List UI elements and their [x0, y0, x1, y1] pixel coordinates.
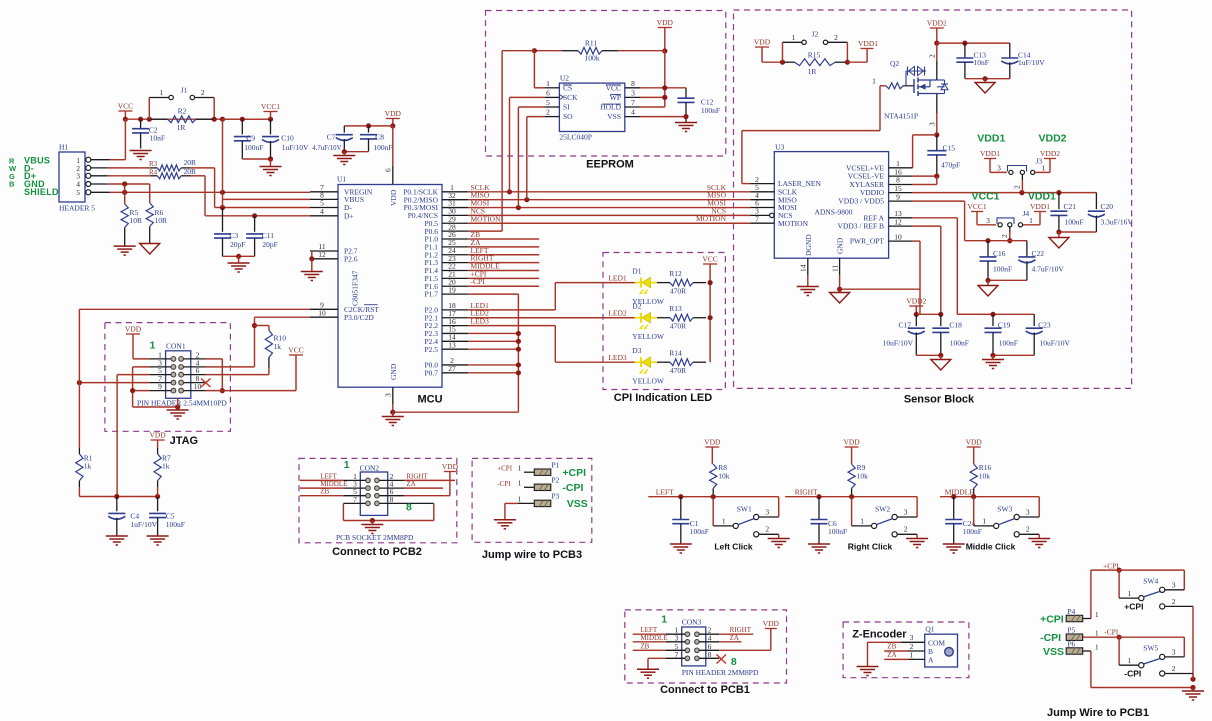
wire H1 pin2 to R3: [91, 167, 151, 169]
wire H1 pin1 VBUS to VCC: [91, 119, 126, 160]
ground under C1: [670, 544, 692, 553]
net label LED1 at MCU: [471, 301, 490, 310]
svg-text:C3: C3: [229, 231, 238, 240]
svg-text:100nF: 100nF: [993, 265, 1012, 274]
capacitor C16 100nF: [980, 241, 1013, 281]
power VDD at JTAG: [125, 325, 142, 359]
title EEPROM: [586, 159, 634, 171]
green label -CPI: [562, 482, 583, 494]
svg-text:2: 2: [765, 525, 769, 534]
wire CON1 pin5 to C4 rail: [117, 375, 150, 497]
header CON1 PIN HEADER 2.54MM10PD: [137, 340, 227, 408]
svg-text:10R: 10R: [155, 216, 168, 225]
svg-text:1R: 1R: [808, 67, 817, 76]
ground under C16 chassis: [978, 286, 998, 297]
svg-text:J2: J2: [812, 30, 819, 39]
net label MOTION at sensor: [696, 214, 727, 223]
svg-text:J1: J1: [181, 86, 188, 95]
ground at SW block: [1182, 691, 1204, 700]
ground under C18 chassis: [931, 360, 951, 371]
switch SW5: [1119, 644, 1193, 677]
net label +CPI at MCU: [471, 269, 487, 278]
svg-text:P5: P5: [1067, 626, 1075, 635]
pad P4: [1066, 607, 1099, 622]
svg-text:-CPI: -CPI: [562, 482, 583, 494]
wire P0.7 to unused bus: [468, 370, 521, 375]
svg-text:100nF: 100nF: [701, 106, 720, 115]
wire H1 pin5 SHIELD / VREGIN row: [91, 190, 310, 195]
svg-text:7: 7: [631, 98, 635, 107]
wire P2.5 to unused bus: [468, 347, 521, 352]
svg-text:10: 10: [318, 308, 326, 317]
svg-text:100nF: 100nF: [690, 527, 709, 536]
svg-text:1uF/10V: 1uF/10V: [130, 520, 157, 529]
wire C13-C14 ground rail: [965, 76, 1010, 82]
svg-text:C10: C10: [281, 134, 294, 143]
svg-text:1: 1: [661, 614, 667, 626]
power VCC1 at J4: [967, 202, 996, 225]
svg-text:7: 7: [675, 650, 679, 659]
svg-text:3: 3: [910, 633, 914, 642]
svg-text:CON2: CON2: [360, 464, 380, 473]
svg-text:100nF: 100nF: [963, 527, 982, 536]
capacitor C4 1uF/10V: [108, 497, 157, 536]
power VCC at JTAG: [288, 346, 303, 391]
header CON2 PCB SOCKET 2MM8PD: [336, 459, 414, 542]
svg-text:20pF: 20pF: [262, 240, 277, 249]
wire R1 column C2CK/RST: [78, 309, 80, 448]
svg-text:10k: 10k: [857, 472, 869, 481]
wire VDD2 rail to C13 C14: [937, 41, 1010, 46]
svg-text:VDD1: VDD1: [980, 149, 1000, 158]
net label RIGHT at SW2: [795, 487, 818, 496]
wire R15 to VDD1: [847, 49, 867, 63]
svg-text:Jump Wire to PCB1: Jump Wire to PCB1: [1047, 707, 1149, 719]
capacitor C6 100nF: [811, 497, 848, 544]
svg-text:VDD: VDD: [657, 18, 674, 27]
ground at P2.6: [301, 272, 323, 281]
capacitor C8 100nF: [360, 126, 393, 152]
wire +CPI rail SW4: [1091, 568, 1184, 619]
wire CON2 pin4 ZA: [404, 487, 443, 489]
ground under C4: [106, 536, 128, 545]
svg-text:Z-Encoder: Z-Encoder: [852, 629, 907, 641]
switch SW4: [1119, 577, 1193, 610]
power VDD at SW2: [843, 438, 860, 465]
wire VDDIO rail VDD1: [913, 190, 1097, 195]
svg-text:VCC: VCC: [288, 346, 303, 355]
ground under C7: [333, 156, 355, 165]
wire LED1 net jog up: [468, 283, 637, 310]
svg-text:-CPI: -CPI: [1124, 669, 1141, 679]
svg-text:10uF/10V: 10uF/10V: [883, 339, 914, 348]
svg-text:1: 1: [344, 459, 350, 471]
net label MOTION at MCU: [471, 214, 502, 223]
svg-text:-CPI: -CPI: [497, 480, 511, 488]
svg-text:1k: 1k: [162, 462, 170, 471]
svg-text:Left Click: Left Click: [714, 542, 753, 552]
power VDD at SW1: [704, 438, 721, 465]
green labels R W G B: [9, 156, 17, 188]
title JTAG: [170, 435, 199, 447]
svg-text:9: 9: [896, 192, 900, 201]
dashed box Connect to PCB2: [299, 458, 457, 542]
green label +CPI: [562, 467, 586, 479]
wire SCK to SCLK row: [510, 97, 545, 191]
wire J3 pin2 to VDDIO rail: [1013, 175, 1023, 193]
svg-text:YELLOW: YELLOW: [632, 332, 665, 341]
svg-text:VDD: VDD: [843, 438, 860, 447]
svg-text:DGND: DGND: [804, 234, 813, 256]
svg-text:6: 6: [546, 88, 550, 97]
svg-text:3: 3: [997, 164, 1001, 173]
resistor R4 20R: [149, 167, 196, 179]
jumper J2: [783, 30, 851, 65]
wire -CPI rail SW5: [1083, 635, 1185, 666]
net label RIGHT at CON2: [406, 472, 428, 480]
svg-text:PIN HEADER 2MM8PD: PIN HEADER 2MM8PD: [682, 668, 759, 677]
wire CON1 pin7 to R1 column: [77, 380, 150, 385]
net label LED2 at MCU: [471, 309, 490, 318]
green label -CPI at P5: [1040, 632, 1061, 644]
wire J2 rail: [762, 60, 785, 65]
svg-text:LED1: LED1: [608, 273, 627, 282]
ground under R6 chassis: [140, 244, 160, 255]
svg-text:3: 3: [904, 508, 908, 517]
svg-text:U2: U2: [560, 74, 569, 83]
svg-text:3: 3: [1172, 647, 1176, 656]
svg-text:NTA4151P: NTA4151P: [884, 112, 918, 121]
svg-text:1: 1: [160, 88, 164, 97]
resistor R14 470R: [657, 349, 706, 376]
svg-text:4: 4: [631, 108, 635, 117]
svg-text:VDD1: VDD1: [1028, 191, 1056, 203]
svg-text:100nF: 100nF: [166, 520, 185, 529]
capacitor C7 4.7uF/10V: [312, 126, 353, 152]
power VDD2 at Q2: [927, 19, 947, 46]
wire H1 pin4 GND: [91, 181, 150, 186]
wire Q2 source from VDD2: [928, 43, 937, 80]
svg-text:1: 1: [1042, 164, 1046, 173]
net label RIGHT at CON3: [730, 626, 752, 634]
wire SCLK row: [468, 189, 750, 194]
dashed box Z-Encoder: [843, 622, 969, 678]
svg-text:VDD: VDD: [966, 438, 983, 447]
svg-text:3: 3: [765, 508, 769, 517]
svg-text:VSS: VSS: [567, 498, 588, 510]
junction R11 left / CS net: [532, 48, 537, 53]
wire C19 C23 top rail: [957, 312, 1034, 317]
wire VCSEL-VE junction: [913, 174, 940, 179]
power VDD above R7: [149, 431, 166, 449]
wire CON1 pin4 to P3.0/C2D: [205, 323, 257, 367]
svg-text:CPI Indication LED: CPI Indication LED: [614, 392, 712, 404]
svg-text:5: 5: [546, 98, 550, 107]
title Z-Encoder: [852, 629, 907, 641]
svg-text:SI: SI: [563, 103, 570, 112]
wire VDD pin 6 of MCU: [384, 126, 393, 185]
resistor R7 1k: [154, 448, 171, 497]
wire J4 pin2 to C16 rail: [1000, 227, 1012, 243]
svg-text:P3: P3: [551, 492, 559, 501]
wire SI to MOSI row: [518, 107, 544, 208]
wire CON2 pin3 MIDDLE: [300, 487, 343, 489]
svg-text:C2CK/RST: C2CK/RST: [344, 305, 379, 314]
svg-text:Right Click: Right Click: [848, 542, 893, 552]
svg-text:C15: C15: [943, 144, 956, 153]
wire C16 C22 top rail: [985, 238, 1027, 243]
ground at P3: [494, 520, 516, 529]
wire H1 pin3 to R4: [91, 175, 151, 177]
wire P3 to ground: [505, 503, 518, 519]
resistor R13 470R: [657, 304, 706, 331]
wire encoder ZA: [884, 658, 908, 660]
svg-text:9: 9: [158, 382, 162, 391]
svg-text:P2.6: P2.6: [344, 254, 358, 263]
svg-text:VCC1: VCC1: [972, 191, 1000, 203]
net label MIDDLE at CON3: [640, 634, 667, 642]
svg-text:SW5: SW5: [1143, 644, 1158, 653]
svg-text:3: 3: [986, 216, 990, 225]
svg-text:CON3: CON3: [682, 618, 702, 627]
wire CON3 pin2 RIGHT: [719, 633, 753, 635]
ground under C13/C14 chassis: [975, 83, 995, 94]
svg-text:8: 8: [390, 495, 394, 504]
svg-text:+CPI: +CPI: [1124, 602, 1143, 612]
label -CPI bold at SW5: [1124, 669, 1141, 679]
svg-text:12: 12: [318, 250, 326, 259]
power VDD at CON2: [442, 462, 459, 496]
svg-text:3: 3: [631, 88, 635, 97]
net label LEFT at SW1: [656, 487, 674, 496]
wire PWR_OPT drop to VDD2 rail: [919, 289, 921, 314]
power VCC at LED block: [702, 255, 717, 283]
wire REF A down to C19 rail: [913, 218, 993, 314]
wire encoder COM to ground: [868, 642, 902, 666]
net label ZA at MCU: [471, 238, 482, 247]
wire CON3 pin5 ZB: [633, 649, 666, 651]
title Connect to PCB1: [660, 684, 750, 696]
MCU U1 C8051F347: [310, 175, 468, 388]
net label LEFT at CON3: [640, 626, 657, 634]
dashed box Connect to PCB1: [625, 610, 787, 683]
ground under C19: [982, 360, 1004, 369]
header H1 HEADER 5: [59, 143, 95, 213]
svg-text:3: 3: [1172, 580, 1176, 589]
svg-text:P6: P6: [1067, 640, 1075, 649]
svg-text:PCB SOCKET 2MM8PD: PCB SOCKET 2MM8PD: [336, 533, 414, 542]
green label VCC1: [972, 191, 1000, 203]
net label ZB at CON3: [640, 642, 649, 650]
svg-text:R2: R2: [178, 107, 187, 116]
wire VCC rail LED block: [709, 283, 711, 363]
svg-text:100nF: 100nF: [244, 143, 263, 152]
ground at SW3 pin2: [1028, 539, 1050, 548]
svg-text:12: 12: [894, 217, 902, 226]
svg-text:VDD: VDD: [442, 462, 459, 471]
svg-text:VDD: VDD: [389, 189, 398, 206]
capacitor C12 100nF: [678, 88, 721, 122]
net label MIDDLE at MCU: [471, 262, 501, 271]
svg-text:10R: 10R: [130, 216, 143, 225]
svg-text:VCC1: VCC1: [967, 202, 986, 211]
svg-text:1: 1: [1095, 642, 1099, 651]
net label SCLK at sensor: [707, 183, 727, 192]
resistor R1 1k: [76, 448, 93, 487]
power VDD1 at J3: [980, 149, 1007, 172]
svg-text:5: 5: [76, 188, 80, 197]
net label ZB at CON2: [320, 488, 329, 496]
svg-text:VDD3 / VDD5: VDD3 / VDD5: [838, 197, 884, 206]
wire CON2 pin6 to VDD: [404, 495, 450, 497]
title CPI Indication LED: [614, 392, 712, 404]
svg-text:1: 1: [1128, 656, 1132, 665]
wire RIGHT row: [785, 494, 917, 499]
title Connect to PCB2: [332, 546, 422, 558]
wire REF B down to VDD2 rail: [913, 226, 941, 314]
svg-text:R14: R14: [669, 349, 682, 358]
svg-text:4.7uF/10V: 4.7uF/10V: [1032, 265, 1065, 274]
svg-text:R15: R15: [808, 51, 821, 60]
svg-text:100k: 100k: [585, 54, 600, 63]
dashed box JTAG: [105, 323, 230, 432]
wire VDD rail to C7 C8: [344, 123, 393, 128]
svg-text:27: 27: [448, 364, 456, 373]
wire C17-C18 ground rail: [916, 353, 943, 359]
svg-text:A: A: [928, 655, 934, 664]
svg-text:1: 1: [1095, 629, 1099, 638]
svg-text:20pF: 20pF: [230, 240, 245, 249]
svg-text:C18: C18: [949, 321, 962, 330]
svg-text:3: 3: [1026, 508, 1030, 517]
ground under MCU: [382, 417, 404, 426]
svg-text:SO: SO: [563, 112, 573, 121]
svg-text:10uF/10V: 10uF/10V: [1040, 339, 1071, 348]
svg-text:GND: GND: [389, 363, 398, 380]
power VDD at EEPROM: [657, 18, 674, 54]
svg-text:C9: C9: [246, 134, 255, 143]
capacitor C3 20pF: [214, 208, 245, 257]
wire XYLASER tie: [913, 176, 937, 184]
capacitor C22 4.7uF/10V: [1018, 241, 1064, 281]
resistor R3 20R: [149, 158, 196, 171]
junction R12 at VCC rail: [708, 280, 713, 285]
wire CON3 pin7 to ground: [648, 658, 666, 668]
power VDD at SW3: [966, 438, 983, 465]
svg-text:VDD2: VDD2: [927, 19, 947, 28]
svg-text:10: 10: [894, 232, 902, 241]
capacitor C10 1uF/10V: [262, 119, 309, 159]
wire C7-C8 bottom rail: [342, 149, 369, 155]
wire VBUS row to MCU: [223, 198, 311, 200]
svg-text:1: 1: [518, 479, 522, 488]
svg-text:PWR_OPT: PWR_OPT: [850, 237, 885, 246]
title Left Click: [714, 542, 753, 552]
wire MIDDLE stub row: [468, 270, 539, 272]
svg-text:100nF: 100nF: [828, 527, 847, 536]
wire CON1 pin1 to VDD: [133, 358, 150, 360]
svg-text:100nF: 100nF: [999, 339, 1018, 348]
pad P2: [518, 476, 560, 491]
svg-text:RIGHT: RIGHT: [795, 487, 818, 496]
wire MISO row: [468, 197, 750, 202]
LED D1 YELLOW: [632, 267, 665, 307]
green label 8 at CON2: [406, 502, 412, 514]
wire CON3 pin4 ZA: [719, 641, 741, 643]
pad P1: [518, 461, 560, 476]
svg-text:100nF: 100nF: [950, 339, 969, 348]
capacitor C9 100nF: [234, 119, 264, 159]
LED D2 YELLOW: [632, 302, 665, 342]
wire C2CK/RST line to JTAG: [79, 308, 310, 310]
svg-text:100nF: 100nF: [1065, 218, 1084, 227]
jumper J3: [997, 157, 1046, 175]
svg-text:Connect to PCB1: Connect to PCB1: [660, 684, 750, 696]
header CON3 PIN HEADER 2MM8PD: [661, 614, 759, 678]
svg-text:8: 8: [708, 650, 712, 659]
svg-text:7: 7: [353, 495, 357, 504]
green label VDD1 at J4: [1028, 191, 1056, 203]
svg-text:10nF: 10nF: [974, 58, 989, 67]
wire R1 to cap rail: [79, 487, 160, 499]
ground under C3/C11: [228, 263, 250, 272]
svg-text:VSS: VSS: [607, 112, 621, 121]
wire D- row to MCU: [215, 205, 310, 210]
svg-text:R4: R4: [149, 168, 158, 176]
junction C2 tap: [138, 117, 143, 122]
ground at CON3 pin7: [637, 669, 659, 678]
resistor R6 10R: [146, 184, 167, 243]
svg-text:10k: 10k: [718, 472, 730, 481]
svg-text:ZA: ZA: [406, 480, 415, 488]
junction rail to D- drop: [220, 117, 225, 122]
svg-text:VDD: VDD: [385, 109, 402, 118]
ground under CON1: [167, 410, 189, 419]
svg-text:4.7uF/10V: 4.7uF/10V: [312, 145, 341, 152]
svg-text:1: 1: [1095, 610, 1099, 619]
svg-text:VCC: VCC: [702, 255, 717, 264]
svg-text:11: 11: [830, 265, 839, 272]
svg-text:ZB: ZB: [887, 643, 896, 651]
svg-text:SW1: SW1: [737, 505, 752, 514]
wire GND pin11 rail to PWR_OPT: [837, 241, 920, 292]
switch SW1: [713, 497, 779, 538]
svg-text:P3.0/C2D: P3.0/C2D: [344, 313, 374, 322]
wire P1.7 unused-pin bus to GND: [393, 294, 519, 412]
green label VDD1: [977, 133, 1005, 145]
no-connect X at CON3 pin8: [717, 655, 727, 664]
svg-text:Connect to PCB2: Connect to PCB2: [332, 546, 422, 558]
svg-text:4: 4: [320, 207, 324, 216]
svg-text:1uF/10V: 1uF/10V: [282, 143, 309, 152]
svg-text:U1: U1: [337, 175, 346, 184]
svg-text:ZB: ZB: [640, 642, 649, 650]
ground under C6: [808, 544, 830, 553]
wire MCU GND pin 3: [384, 387, 396, 416]
title Sensor Block: [904, 394, 975, 406]
svg-text:P4: P4: [1067, 607, 1075, 616]
wire VCSEL+VE to Q2 drain: [913, 135, 937, 168]
svg-text:PIN HEADER 2.54MM10PD: PIN HEADER 2.54MM10PD: [137, 399, 227, 408]
no-connect X at CON1 pin8: [201, 379, 211, 388]
svg-text:VDD2: VDD2: [1040, 149, 1060, 158]
svg-text:3: 3: [384, 393, 393, 397]
net label MISO at MCU: [471, 191, 490, 200]
svg-text:8: 8: [406, 502, 412, 514]
svg-text:R11: R11: [585, 39, 597, 48]
wire CS branch to P0.6 column: [502, 50, 534, 52]
wire MOSI row: [468, 205, 750, 210]
